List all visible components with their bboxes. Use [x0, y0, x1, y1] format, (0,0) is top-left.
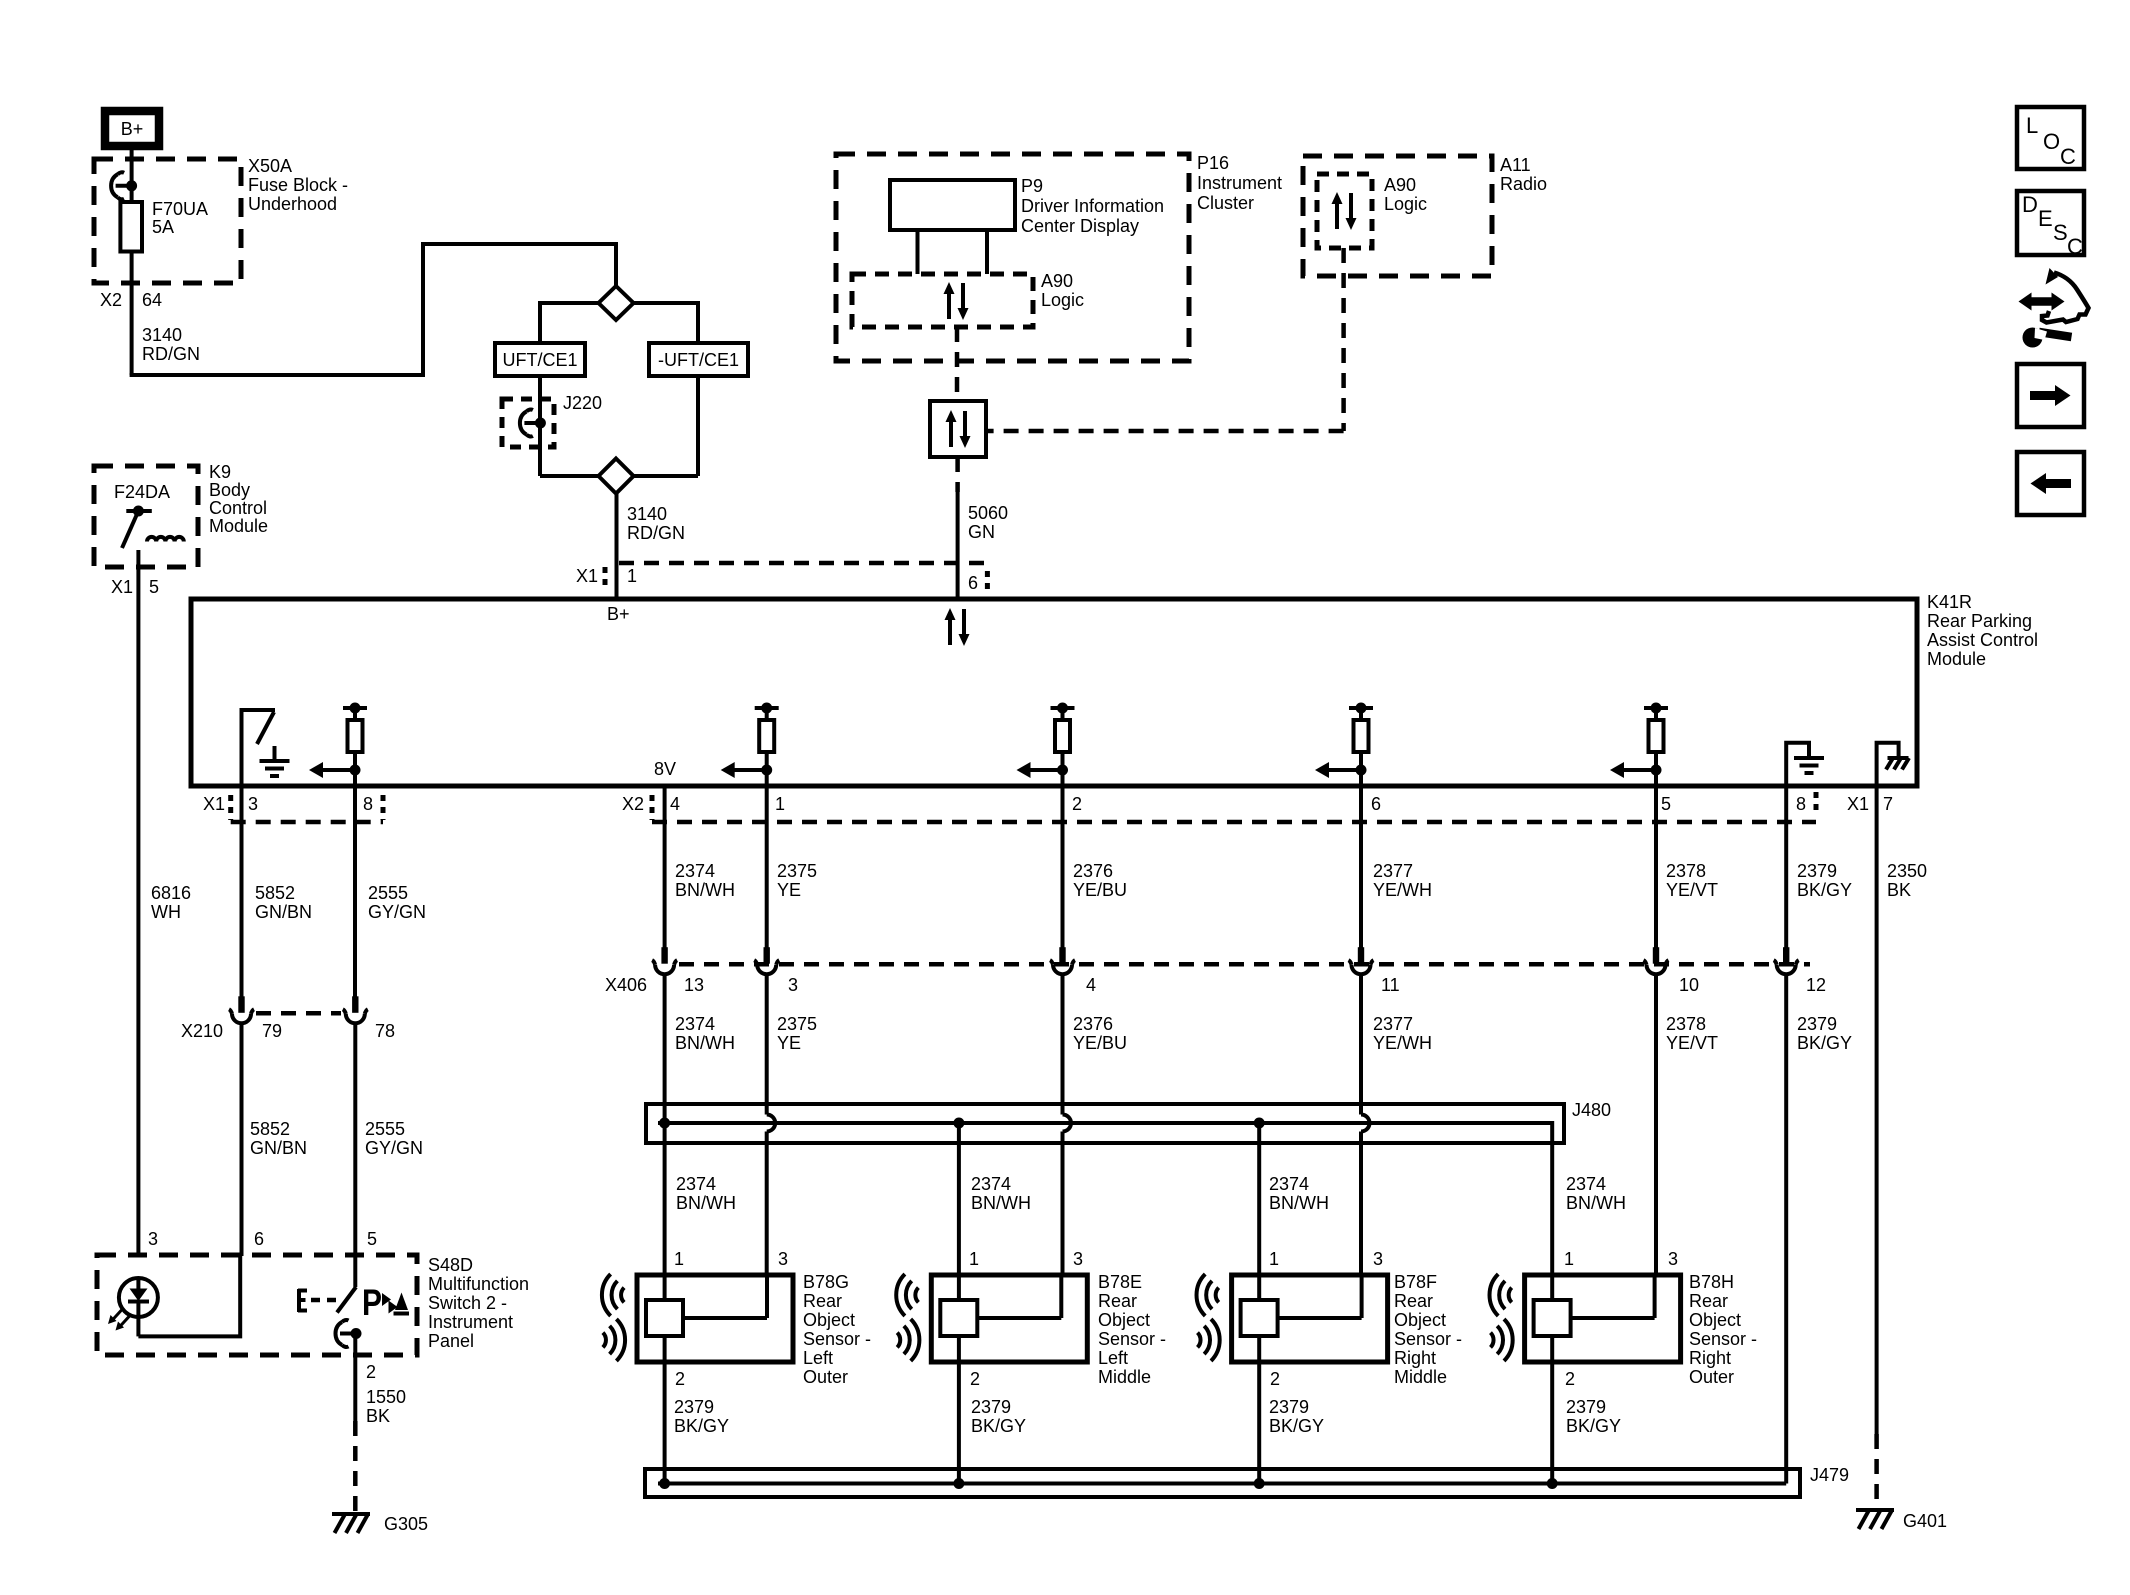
icon troubleshooting arrow-wrench — [2019, 268, 2089, 348]
wire 2377 below J480 — [1359, 1132, 1363, 1276]
wire 2375 module pin1 down — [765, 786, 769, 952]
switch linkage dashed — [311, 1298, 339, 1303]
B+ battery feed box — [105, 111, 159, 146]
svg-text:Switch 2 -: Switch 2 - — [428, 1293, 507, 1313]
svg-text:GY/GN: GY/GN — [368, 902, 426, 922]
B78E sound waves — [896, 1274, 919, 1361]
X1 pin 1 labels — [576, 566, 637, 586]
svg-text:1: 1 — [969, 1249, 979, 1269]
X210 connector pin 78 — [343, 996, 368, 1023]
wire 2374 BN/WH label r1 — [675, 861, 735, 900]
svg-text:Sensor -: Sensor - — [1098, 1329, 1166, 1349]
svg-text:4: 4 — [670, 794, 680, 814]
svg-text:RD/GN: RD/GN — [142, 344, 200, 364]
X2 bracket tick left — [650, 795, 655, 820]
X1 top tick left — [603, 567, 608, 589]
svg-text:YE/VT: YE/VT — [1666, 880, 1718, 900]
svg-text:1: 1 — [1269, 1249, 1279, 1269]
fuse label — [152, 199, 208, 237]
svg-text:A90: A90 — [1384, 175, 1416, 195]
svg-text:X1: X1 — [203, 794, 225, 814]
svg-text:2350: 2350 — [1887, 861, 1927, 881]
svg-text:Instrument: Instrument — [428, 1312, 513, 1332]
svg-text:X1: X1 — [576, 566, 598, 586]
K9 relay contact — [122, 506, 152, 549]
svg-text:S48D: S48D — [428, 1255, 473, 1275]
svg-text:Control: Control — [209, 498, 267, 518]
svg-text:Object: Object — [1394, 1310, 1446, 1330]
svg-text:BK: BK — [1887, 880, 1911, 900]
module pull-up resistor pin 8 — [309, 703, 367, 787]
wire 2555 GY/GN label — [368, 883, 426, 922]
module serial data arrows — [945, 608, 970, 646]
wire down to splice diamond — [614, 242, 618, 288]
X2 bracket tick right — [1814, 792, 1819, 815]
svg-text:1: 1 — [775, 794, 785, 814]
svg-text:Right: Right — [1394, 1348, 1436, 1368]
wire splice to module pin X1-1 — [615, 493, 619, 599]
svg-text:Logic: Logic — [1384, 194, 1427, 214]
svg-text:Outer: Outer — [803, 1367, 848, 1387]
svg-text:8V: 8V — [654, 759, 676, 779]
S48D switch blade — [337, 1287, 356, 1313]
svg-text:2: 2 — [1270, 1369, 1280, 1389]
svg-text:L: L — [2026, 113, 2038, 138]
wire 2378 module pin5 down — [1654, 786, 1658, 952]
wire 5852 below X210 — [240, 1022, 244, 1256]
svg-text:2555: 2555 — [365, 1119, 405, 1139]
J480 hop 2377 — [1361, 1115, 1370, 1132]
wire 2374 module pin4 down — [663, 786, 667, 952]
J480 internal bus wire — [658, 1123, 1552, 1143]
svg-text:K41R: K41R — [1927, 592, 1972, 612]
svg-text:D: D — [2022, 192, 2038, 217]
svg-text:G401: G401 — [1903, 1511, 1947, 1531]
P9 label — [1021, 176, 1164, 236]
wire 2376 YE/BU label r2 — [1073, 1014, 1127, 1053]
svg-text:2377: 2377 — [1373, 1014, 1413, 1034]
svg-text:1550: 1550 — [366, 1387, 406, 1407]
svg-text:Rear: Rear — [803, 1291, 842, 1311]
svg-text:2375: 2375 — [777, 861, 817, 881]
svg-text:2: 2 — [1565, 1369, 1575, 1389]
svg-text:5: 5 — [149, 577, 159, 597]
svg-text:6: 6 — [1371, 794, 1381, 814]
svg-text:Assist Control: Assist Control — [1927, 630, 2038, 650]
svg-text:7: 7 — [1883, 794, 1893, 814]
svg-text:2374: 2374 — [675, 1014, 715, 1034]
svg-text:E: E — [2038, 206, 2053, 231]
svg-text:Right: Right — [1689, 1348, 1731, 1368]
icon next arrow box — [2017, 364, 2084, 427]
wire 2350 BK label — [1887, 861, 1927, 900]
svg-text:Underhood: Underhood — [248, 194, 337, 214]
svg-text:Fuse Block -: Fuse Block - — [248, 175, 348, 195]
X406 connector pin 3 — [754, 947, 779, 974]
wire 2376 below X406 — [1061, 973, 1065, 1115]
wire riser up — [421, 244, 425, 377]
splice diamond bottom — [599, 459, 634, 494]
svg-text:B78H: B78H — [1689, 1272, 1734, 1292]
X1 top tick right — [985, 571, 990, 594]
fuse block X50A dashed box — [94, 159, 241, 283]
svg-text:YE/WH: YE/WH — [1373, 1033, 1432, 1053]
A90 logic label in A11 — [1384, 175, 1427, 214]
svg-text:Middle: Middle — [1098, 1367, 1151, 1387]
wire diamond to -UFT/CE1 — [634, 303, 699, 343]
svg-text:B78F: B78F — [1394, 1272, 1437, 1292]
svg-text:O: O — [2043, 129, 2060, 154]
dashed serial link A90 to gateway box — [955, 327, 960, 399]
wire 5852 module pin3 down — [240, 786, 244, 1000]
X406 connector pin 11 — [1349, 947, 1374, 974]
sensor pin2 labels row — [675, 1369, 1575, 1389]
svg-text:X1: X1 — [111, 577, 133, 597]
wire 3140 RD/GN label — [142, 325, 200, 364]
X406 connector pin 12 — [1774, 947, 1799, 974]
svg-text:3: 3 — [1073, 1249, 1083, 1269]
module internal ground pin 8 right — [1786, 743, 1824, 786]
svg-text:3140: 3140 — [142, 325, 182, 345]
S48D switch lower clip contact — [336, 1320, 362, 1347]
svg-text:2374: 2374 — [675, 861, 715, 881]
K9 label — [209, 462, 268, 536]
svg-text:BK/GY: BK/GY — [971, 1416, 1026, 1436]
wire 2378 YE/VT label r2 — [1666, 1014, 1718, 1053]
svg-text:F70UA: F70UA — [152, 199, 208, 219]
svg-text:K9: K9 — [209, 462, 231, 482]
module X2 pin row labels — [622, 794, 1806, 814]
svg-text:B+: B+ — [121, 119, 144, 139]
svg-text:Middle: Middle — [1394, 1367, 1447, 1387]
svg-text:X1: X1 — [1847, 794, 1869, 814]
wire 5060 GN down to module — [956, 492, 960, 599]
X1 bracket tick right — [381, 795, 386, 820]
wire to bottom diamond right — [633, 474, 698, 478]
X406 dashed line — [679, 962, 1810, 967]
wire 2374 to sensor2 — [957, 1123, 961, 1275]
icon back arrow box — [2017, 452, 2084, 515]
J479 internal bus wire — [658, 1482, 1786, 1486]
wire 2379 sensor1 pin2 down — [663, 1362, 667, 1484]
sensor B78H rear object sensor right outer — [1525, 1275, 1681, 1362]
P park assist legend — [362, 1282, 409, 1323]
B78F label — [1394, 1272, 1462, 1387]
gateway serial data arrows — [946, 410, 971, 448]
S48D indicator LED — [119, 1278, 158, 1336]
wire 2379 BK/GY label r1 — [1797, 861, 1852, 900]
svg-text:GY/GN: GY/GN — [365, 1138, 423, 1158]
svg-text:Rear: Rear — [1098, 1291, 1137, 1311]
svg-text:X2: X2 — [622, 794, 644, 814]
svg-text:YE: YE — [777, 1033, 801, 1053]
svg-text:79: 79 — [262, 1021, 282, 1041]
wire 2378 YE/VT label r1 — [1666, 861, 1718, 900]
svg-text:Radio: Radio — [1500, 174, 1547, 194]
svg-text:Sensor -: Sensor - — [1689, 1329, 1757, 1349]
X210 labels — [181, 1021, 395, 1041]
wire 2555 below X210 — [353, 1022, 357, 1256]
svg-text:2555: 2555 — [368, 883, 408, 903]
svg-text:6816: 6816 — [151, 883, 191, 903]
module X1 pin row labels left — [203, 794, 373, 814]
wire 2374 BN/WH label r2 — [675, 1014, 735, 1053]
svg-text:X210: X210 — [181, 1021, 223, 1041]
wire 2379 BK/GY label s1 — [674, 1397, 729, 1436]
J480 hop 2376 — [1063, 1115, 1072, 1132]
svg-text:64: 64 — [142, 290, 162, 310]
svg-text:1: 1 — [627, 566, 637, 586]
svg-text:B+: B+ — [607, 604, 630, 624]
ground G401 — [1856, 1510, 1947, 1531]
svg-text:F24DA: F24DA — [114, 482, 170, 502]
wire 2375 YE label r1 — [777, 861, 817, 900]
svg-text:Sensor -: Sensor - — [803, 1329, 871, 1349]
svg-text:2379: 2379 — [1566, 1397, 1606, 1417]
svg-text:BK/GY: BK/GY — [1566, 1416, 1621, 1436]
svg-text:2374: 2374 — [971, 1174, 1011, 1194]
X1 bracket dashed line — [231, 820, 383, 825]
dashed wire to G401 — [1874, 1434, 1879, 1506]
wire 2374 BN/WH label s4 — [1566, 1174, 1626, 1213]
K9 body control module dashed box — [94, 466, 198, 567]
X406 labels — [605, 975, 1826, 995]
wire 2379 sensor4 pin2 down — [1550, 1362, 1554, 1484]
J480 junction dot sensor3 — [1254, 1118, 1265, 1129]
svg-text:2376: 2376 — [1073, 861, 1113, 881]
svg-text:Object: Object — [1098, 1310, 1150, 1330]
svg-text:X2: X2 — [100, 290, 122, 310]
svg-text:YE/VT: YE/VT — [1666, 1033, 1718, 1053]
S48D LED to pin6 link wire — [138, 1256, 240, 1336]
svg-text:Left: Left — [1098, 1348, 1128, 1368]
wire 2375 below J480 — [765, 1132, 769, 1276]
module X1 connector dashed line top — [619, 561, 987, 566]
svg-text:5852: 5852 — [250, 1119, 290, 1139]
wire 2375 below X406 — [765, 973, 769, 1115]
wire -UFT/CE1 down — [696, 376, 700, 476]
svg-text:2377: 2377 — [1373, 861, 1413, 881]
svg-text:2379: 2379 — [971, 1397, 1011, 1417]
dashed serial link radio down — [1341, 248, 1346, 431]
wire 2374 BN/WH label s3 — [1269, 1174, 1329, 1213]
wire fuse down — [130, 252, 134, 376]
svg-text:78: 78 — [375, 1021, 395, 1041]
B78F sound waves — [1197, 1274, 1220, 1361]
fuse block label — [248, 156, 348, 214]
B78E label — [1098, 1272, 1166, 1387]
wire 1550 BK label — [366, 1387, 406, 1426]
svg-text:3: 3 — [148, 1229, 158, 1249]
wire S48D pin2 down — [353, 1334, 357, 1422]
svg-text:2: 2 — [675, 1369, 685, 1389]
svg-text:Instrument: Instrument — [1197, 173, 1282, 193]
svg-text:P16: P16 — [1197, 153, 1229, 173]
UFT/CE1 fuse telltale box — [495, 343, 585, 376]
svg-text:A11: A11 — [1500, 155, 1531, 175]
wire 2379 BK/GY label r2 — [1797, 1014, 1852, 1053]
svg-text:B78G: B78G — [803, 1272, 849, 1292]
wire B+ to fuse — [130, 150, 134, 202]
svg-text:BN/WH: BN/WH — [971, 1193, 1031, 1213]
svg-text:J479: J479 — [1810, 1465, 1849, 1485]
dashed serial link radio to gateway box — [986, 429, 1344, 434]
svg-text:Cluster: Cluster — [1197, 193, 1254, 213]
svg-text:BK/GY: BK/GY — [674, 1416, 729, 1436]
sensor B78E rear object sensor left middle — [931, 1275, 1087, 1362]
svg-text:2378: 2378 — [1666, 1014, 1706, 1034]
sensor B78F rear object sensor right middle — [1232, 1275, 1388, 1362]
J480 hop 2375 — [767, 1115, 776, 1132]
wire 2376 below J480 — [1061, 1132, 1065, 1276]
wire 2374 BN/WH label s2 — [971, 1174, 1031, 1213]
svg-text:2374: 2374 — [1566, 1174, 1606, 1194]
P16 label — [1197, 153, 1282, 213]
wire 2378 below X406 — [1654, 973, 1658, 1275]
module pull-up resistor pin 6 — [1315, 703, 1373, 787]
svg-text:J480: J480 — [1572, 1100, 1611, 1120]
wire 2555 GY/GN label 2 — [365, 1119, 423, 1158]
svg-text:2379: 2379 — [674, 1397, 714, 1417]
svg-text:2: 2 — [1072, 794, 1082, 814]
svg-text:5: 5 — [367, 1229, 377, 1249]
A11 radio dashed box — [1303, 156, 1492, 276]
svg-text:BN/WH: BN/WH — [675, 880, 735, 900]
LED emission arrows — [108, 1310, 130, 1331]
svg-text:5A: 5A — [152, 217, 174, 237]
module internal switch to ground at pin 3 — [240, 710, 276, 786]
svg-text:5: 5 — [1661, 794, 1671, 814]
B78G sound waves — [602, 1274, 625, 1361]
svg-text:S: S — [2053, 220, 2068, 245]
svg-text:2378: 2378 — [1666, 861, 1706, 881]
wire 2377 YE/WH label r1 — [1373, 861, 1432, 900]
wire 2379 sensor3 pin2 down — [1257, 1362, 1261, 1484]
svg-text:3: 3 — [778, 1249, 788, 1269]
wire horizontal to splice riser — [130, 373, 423, 377]
wire 2555 into S48D pin 5 — [353, 1256, 357, 1287]
wire 2374 to sensor3 — [1257, 1123, 1261, 1275]
wire 2374 below X406 — [663, 973, 667, 1275]
svg-text:2379: 2379 — [1797, 1014, 1837, 1034]
wire 2377 YE/WH label r2 — [1373, 1014, 1432, 1053]
svg-text:Logic: Logic — [1041, 290, 1084, 310]
S48D pin labels 3 6 5 — [148, 1229, 377, 1249]
svg-text:Body: Body — [209, 480, 250, 500]
sensor pin labels row — [674, 1249, 1678, 1269]
S48D switch linkage E bracket — [298, 1289, 307, 1312]
wire 2377 below X406 — [1359, 973, 1363, 1115]
wire 2555 module pin8 down — [353, 786, 357, 1000]
K9 pin labels X1 5 — [111, 577, 159, 597]
-UFT/CE1 fuse telltale box — [649, 343, 748, 376]
module pull-up resistor pin 2 — [1017, 703, 1075, 787]
svg-text:1: 1 — [674, 1249, 684, 1269]
svg-text:5852: 5852 — [255, 883, 295, 903]
module internal ground symbol — [260, 746, 290, 776]
svg-text:G305: G305 — [384, 1514, 428, 1534]
wire to bottom diamond left — [540, 474, 599, 478]
dashed wire to G305 — [353, 1421, 358, 1512]
svg-text:YE: YE — [777, 880, 801, 900]
svg-text:Rear Parking: Rear Parking — [1927, 611, 2032, 631]
X406 connector pin 13 — [652, 947, 677, 974]
wire 5060 GN label — [968, 503, 1008, 542]
K41R label — [1927, 592, 2038, 669]
svg-text:13: 13 — [684, 975, 704, 995]
svg-text:2379: 2379 — [1269, 1397, 1309, 1417]
B78H label — [1689, 1272, 1757, 1387]
svg-text:3: 3 — [1373, 1249, 1383, 1269]
wire top horizontal — [421, 242, 616, 246]
J480 junction dot sensor2 — [953, 1118, 964, 1129]
module internal chassis ground pin 7 — [1877, 743, 1909, 786]
svg-text:Sensor -: Sensor - — [1394, 1329, 1462, 1349]
module pull-up resistor pin 5 — [1610, 703, 1668, 787]
svg-text:2374: 2374 — [676, 1174, 716, 1194]
svg-text:J220: J220 — [563, 393, 602, 413]
S48D multifunction switch dashed box — [97, 1255, 417, 1355]
splice diamond top — [599, 286, 634, 320]
svg-text:3: 3 — [1668, 1249, 1678, 1269]
svg-text:C: C — [2060, 144, 2076, 169]
wire 2379 BK/GY label s4 — [1566, 1397, 1621, 1436]
icon LOC box — [2017, 107, 2084, 169]
svg-text:2379: 2379 — [1797, 861, 1837, 881]
svg-text:BN/WH: BN/WH — [1566, 1193, 1626, 1213]
P16 instrument cluster dashed box — [836, 154, 1189, 361]
wire 2377 module pin6 down — [1359, 786, 1363, 952]
svg-text:2374: 2374 — [1269, 1174, 1309, 1194]
svg-text:BK/GY: BK/GY — [1269, 1416, 1324, 1436]
serial data gateway box — [930, 401, 986, 457]
svg-text:X50A: X50A — [248, 156, 292, 176]
fuse block terminal clip — [111, 172, 137, 199]
svg-text:BK: BK — [366, 1406, 390, 1426]
svg-text:Outer: Outer — [1689, 1367, 1734, 1387]
J220 splice clip — [520, 410, 546, 437]
svg-text:B78E: B78E — [1098, 1272, 1142, 1292]
svg-text:8: 8 — [1796, 794, 1806, 814]
wire 2379 below X406 — [1784, 973, 1788, 1484]
wire 2376 YE/BU label r1 — [1073, 861, 1127, 900]
svg-text:BK/GY: BK/GY — [1797, 1033, 1852, 1053]
svg-text:GN/BN: GN/BN — [250, 1138, 307, 1158]
K41R rear parking assist control module box — [191, 599, 1917, 786]
svg-text:8: 8 — [363, 794, 373, 814]
svg-text:P9: P9 — [1021, 176, 1043, 196]
svg-text:BN/WH: BN/WH — [1269, 1193, 1329, 1213]
svg-text:YE/BU: YE/BU — [1073, 880, 1127, 900]
wire 3140 RD/GN label 2 — [627, 504, 685, 543]
fuse F70UA — [120, 202, 142, 252]
wire 6816 from K9 down to S48D — [136, 550, 140, 1256]
module pull-up resistor pin 1 — [721, 703, 779, 787]
svg-text:Panel: Panel — [428, 1331, 474, 1351]
X210 dashed line — [256, 1011, 341, 1016]
wire 2379 BK/GY label s3 — [1269, 1397, 1324, 1436]
wire 2374 BN/WH label s1 — [676, 1174, 736, 1213]
svg-text:2375: 2375 — [777, 1014, 817, 1034]
J479 junction dot s1 — [659, 1478, 670, 1489]
svg-text:4: 4 — [1086, 975, 1096, 995]
B78H sound waves — [1490, 1274, 1513, 1361]
K9 coil squiggle — [147, 537, 184, 542]
X406 connector pin 10 — [1644, 947, 1669, 974]
svg-text:BK/GY: BK/GY — [1797, 880, 1852, 900]
wire 2376 module pin2 down — [1061, 786, 1065, 952]
J479 junction dot s2 — [953, 1478, 964, 1489]
